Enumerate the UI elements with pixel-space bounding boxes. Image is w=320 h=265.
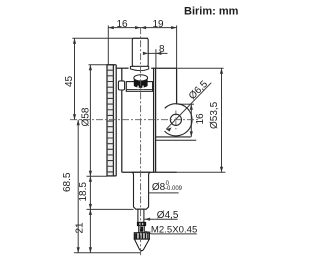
arrow O53.5 top [220,68,223,74]
bezel back edge [115,65,117,176]
ext line stem bottom [87,208,134,210]
arrow O58 top [89,65,92,71]
bracket plate [126,82,152,92]
body top edge right of boss [151,67,176,69]
arrow dim68.5 top [77,120,80,126]
dim 8 line [141,52,168,54]
arrow dim19 left [141,26,147,29]
back plate rear edge [176,68,178,104]
ext line left of dim 16 [107,25,109,64]
clamp block [118,81,124,90]
lug hole vertical center mark [175,110,177,129]
leader O8 underline [139,192,178,194]
dim 16 (lug) top ext line [178,103,194,105]
arrow 18.5 bottom [89,204,92,210]
bezel top ext line [89,64,108,66]
arrow dim45 bottom [73,114,76,120]
bracket plate inner line [126,88,152,90]
contact knurl stripes [135,233,149,238]
dome knurl slits [137,86,143,90]
ext line for dim 8 [155,49,157,68]
arrow dim45 top [73,38,76,44]
arrowheads [73,26,223,253]
dim texts [62,19,220,235]
bezel top edge [107,64,116,66]
leader O6.5 [166,83,211,130]
lug lower flange line [156,139,197,141]
leader M2.5 diagonal [145,231,151,234]
dome knob top ellipse [134,75,148,81]
svg-text:Ø8: Ø8 [152,182,166,193]
dim O53.5 line [221,68,223,172]
ext line right of dim 19 [176,25,178,68]
arrow dim8 left [143,52,149,55]
O53.5 top extension line [177,67,223,69]
svg-text:Ø4,5: Ø4,5 [157,210,179,221]
svg-text:19: 19 [153,19,165,30]
stem (O8) [132,172,151,209]
object outlines (heavier) [107,65,196,176]
arrow dim68.5 bottom [77,247,80,253]
lug bottom edge [156,136,191,138]
arrow dim16 left [108,26,114,29]
svg-text:68.5: 68.5 [62,172,73,192]
bezel knurl serrations [107,70,113,172]
cap top extension line [72,37,148,39]
horizontal centerline of dial [70,119,200,121]
svg-text:Ø58: Ø58 [81,107,92,126]
svg-text:45: 45 [64,75,75,87]
ext line at contact tip [74,252,141,254]
back plate front edge [155,68,157,172]
dim 16 (lug) line [190,104,192,137]
dim 45 line [74,38,76,119]
arrow 18.5 top [89,176,92,182]
case bottom ext to O53.5 dim [177,171,225,173]
lifting cap [132,38,148,66]
arrow dim19 right [171,26,177,29]
contact point knurl ring [134,233,149,239]
body top edge left of boss [116,67,128,69]
case front edge lower [121,90,123,172]
svg-text:M2.5X0.45: M2.5X0.45 [151,225,197,236]
arrow 21 bottom [89,247,92,253]
arrow O58 bottom [89,171,92,177]
vertical centerline of spindle [140,27,142,255]
arrow dim16 lug top [190,104,193,110]
arrow leader O6.5 [166,127,171,131]
svg-text:Birim: mm: Birim: mm [184,6,239,18]
cap boss flare [130,66,148,70]
contact point neck [139,226,145,233]
arrow leader M2.5 [145,231,151,235]
dim 19 line (top) [141,27,177,29]
contact point neck thread fill [140,227,144,232]
lug hole [170,114,181,125]
svg-text:8: 8 [159,44,165,55]
arrow dim16 right [135,26,141,29]
dome knob black body [134,78,148,88]
contact tip [140,249,144,251]
bezel bottom edge [107,175,116,177]
knurled bezel band [107,65,113,176]
contact cone [134,239,149,251]
leader M2.5 underline [152,233,197,235]
contact point collar [137,222,145,225]
case front edge upper [121,68,123,81]
arrow dim8 right [156,52,162,55]
arrow leader O4.5 [145,218,151,221]
svg-text:Ø53,5: Ø53,5 [209,101,220,129]
case bottom edge [122,171,177,173]
svg-text:21: 21 [74,222,85,234]
arrow dim16 lug bottom [190,131,193,137]
svg-text:16: 16 [195,113,206,125]
body back edge [153,68,155,172]
ext line bezel bottom [87,175,108,177]
dim 16 line (top) [108,27,140,29]
svg-text:-0.009: -0.009 [165,186,183,192]
svg-text:16: 16 [117,19,129,30]
dim 68.5 line [77,120,79,253]
dim chain line (O58 / 18.5 / 21) [89,65,91,253]
lug rounded tab arc [165,104,193,136]
arrow O53.5 bottom [220,167,223,173]
svg-text:18.5: 18.5 [78,182,89,202]
arrow 21 top [89,209,92,215]
spindle (O4.5) [138,209,144,222]
leader O4.5 underline [145,218,178,220]
